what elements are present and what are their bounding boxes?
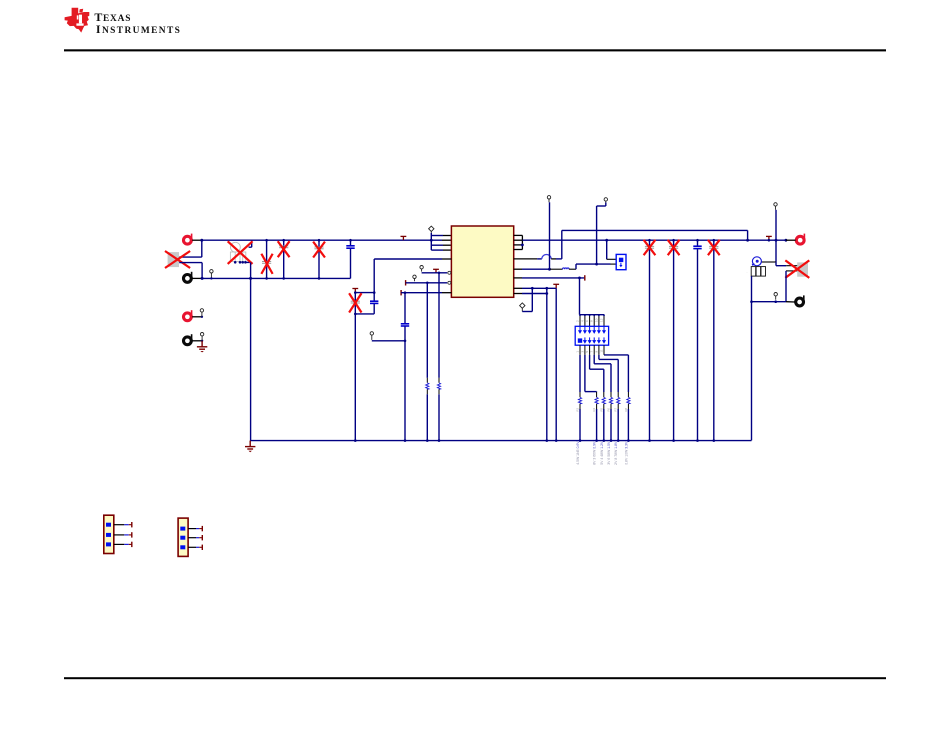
wire U1 pin VIN1 — [431, 235, 443, 237]
resistor R2 wire lower — [426, 389, 428, 394]
node sense bus crossing — [775, 239, 778, 242]
node GND junction at jack — [201, 277, 204, 280]
node PH loop to VOUT bus — [746, 239, 749, 242]
wire C6 top net — [355, 292, 374, 294]
wire J12 pin 3 lead — [188, 546, 196, 548]
resistor R8 wire lower — [627, 404, 629, 409]
svg-text:4: 4 — [580, 320, 584, 322]
net flag AGND diamond — [520, 303, 525, 312]
wire JP2 to output return — [751, 276, 753, 440]
connector JP1 (blue) — [616, 254, 626, 269]
wire U1 PGOOD pin to header — [514, 277, 522, 279]
wire J5 pin3 jog — [584, 355, 586, 392]
resistor R1 — [437, 383, 440, 389]
wire U1 EN pin (bubble) — [422, 272, 448, 274]
svg-text:11: 11 — [599, 349, 603, 352]
svg-text:8: 8 — [590, 320, 594, 322]
wire output bus VOUT — [522, 239, 786, 241]
svg-text:R6: R6 — [607, 407, 611, 411]
net flag SSTRACK — [370, 332, 373, 340]
node ground bus junction — [713, 439, 716, 442]
power tap T4 on FB net — [553, 284, 559, 288]
net flag on J10 — [200, 333, 203, 341]
wire J12 pin 2 lead — [188, 537, 196, 539]
connector J11 pin 2 — [106, 533, 111, 537]
svg-text:1: 1 — [575, 351, 579, 353]
resistor R6 — [609, 397, 612, 403]
wire J9 stub — [192, 316, 202, 318]
capacitor C9 plates — [669, 246, 678, 248]
wire U1 PH pin with hop — [514, 258, 537, 260]
capacitor C1 (DNP) wire — [266, 240, 268, 278]
svg-text:6: 6 — [585, 320, 589, 322]
capacitor C7 soft-start wire — [404, 293, 406, 324]
wire J5 pin9 jog — [598, 355, 600, 360]
node VOUT tie — [521, 244, 524, 247]
DNP X over C9 — [668, 241, 678, 255]
banana jack J10 sense- (black) — [184, 334, 193, 344]
node ground bus junction — [603, 439, 606, 442]
wire FB divider vertical 1 — [555, 288, 557, 440]
resistor R4 — [595, 397, 598, 403]
wire U1 SS pin — [401, 292, 442, 294]
wire J11 pin 1 lead — [114, 524, 125, 526]
connector J12 body — [178, 518, 188, 556]
svg-text:R7: R7 — [614, 407, 618, 411]
resistor R6 wire lower — [610, 404, 612, 409]
connector J5 bottom row pins, pin1 square — [578, 338, 582, 342]
wire header bottom pin stubs — [580, 345, 604, 355]
ground symbol at J10 — [197, 341, 207, 353]
wire current loop link — [762, 261, 777, 263]
net stop bar J12 pin 1 — [199, 528, 202, 530]
wire BOOT cap branch vertical — [373, 259, 375, 301]
power tap T1 on VIN bus — [401, 236, 407, 240]
wire J3 to GND bus — [192, 277, 202, 279]
node VIN bus crossing — [430, 239, 433, 242]
capacitor C4 input bulk — [350, 240, 352, 245]
connector J12 pin 3 — [180, 545, 185, 549]
node ground bus junction — [610, 439, 613, 442]
capacitor C11 (DNP) wire — [713, 240, 715, 440]
net stop bar J12 pin 2 — [199, 537, 202, 539]
TI logo wordmark TEXAS INSTRUMENTS — [94, 10, 181, 36]
capacitor C9 (DNP) wire — [673, 240, 675, 440]
svg-text:R3: R3 — [576, 407, 580, 411]
svg-text:9: 9 — [594, 351, 598, 353]
wire SSTRACK to C7 net — [372, 340, 405, 342]
wire U1 pin VIN3 — [431, 244, 443, 246]
power tap T2 on C6 net — [352, 289, 358, 293]
wire U1 SW pin to inductor L1 — [514, 268, 522, 270]
wire output return horizontal — [752, 301, 787, 303]
banana jack J3 VIN- (black) — [184, 272, 193, 283]
wire J1 to bus — [192, 239, 202, 241]
wire J6 pin2 down — [785, 271, 787, 302]
connector J2 (DNP, grey) — [168, 252, 179, 267]
node JP2 return junction — [750, 300, 753, 303]
capacitor C2 plates — [279, 246, 288, 248]
wire J11 pin 2 lead — [114, 534, 125, 536]
wire U1 BOOT pin net — [374, 258, 442, 260]
wire L1 to jumper JP1 — [569, 268, 576, 270]
wire J12 pin 1 lead — [188, 528, 196, 530]
wire PH feedback loop up-over — [561, 230, 563, 259]
resistor R6 wire upper — [610, 392, 612, 397]
wire header top pin stubs — [580, 315, 604, 327]
node ground bus junction — [404, 439, 407, 442]
net flag VOUT sense top right — [774, 203, 777, 210]
svg-text:8V 3 66W 0.9V: 8V 3 66W 0.9V — [593, 441, 597, 465]
svg-text:5V 4 48W 1.2V: 5V 4 48W 1.2V — [600, 441, 604, 465]
wire J5 pin11 jog — [603, 354, 605, 356]
power tap T5 on VOUT bus — [766, 236, 772, 240]
capacitor C7 — [401, 324, 409, 326]
svg-text:7: 7 — [590, 351, 594, 353]
wire U1 COMP pin net — [514, 293, 522, 295]
DNP X over connector J4 — [229, 242, 252, 263]
wire header feed rail — [580, 314, 605, 316]
wire GND vertical from J4 to ground bus — [250, 262, 252, 440]
resistor R8 — [627, 397, 630, 403]
connector J11 pin 3 — [106, 542, 111, 546]
banana jack J1 VIN+ (red) — [184, 234, 193, 245]
node ground bus junction — [426, 439, 429, 442]
resistor R5 wire upper — [603, 392, 605, 397]
capacitor C8 plates — [645, 246, 654, 248]
header J5 pin numbers bottom — [575, 349, 603, 352]
connector J6 (DNP grey) — [797, 262, 808, 276]
wire bus tap to J4 top — [251, 240, 253, 247]
wire J5 pin7 jog — [593, 355, 595, 364]
node ground bus junction — [438, 439, 441, 442]
svg-text:..: .. — [746, 270, 748, 273]
connector J12 pin 1 — [180, 527, 185, 531]
node ground bus junction — [555, 439, 558, 442]
banana jack J9 sense+ (red) — [184, 310, 193, 320]
net stop bar J11 pin 3 — [129, 543, 132, 545]
svg-text:R5: R5 — [599, 407, 603, 411]
header rule — [64, 49, 886, 51]
DNP X over C2 — [278, 242, 289, 256]
connector J5 body (blue) — [575, 326, 608, 345]
wire ground bus — [250, 440, 751, 442]
net flag SYNC — [413, 275, 416, 281]
net stop bar on SYNC net — [405, 280, 407, 285]
wire C5/C6 join to ground — [355, 313, 374, 315]
wire PGOOD drop to header rail — [579, 278, 581, 315]
resistor R5 wire lower — [603, 404, 605, 409]
svg-text:3: 3 — [580, 351, 584, 353]
resistor R5 — [602, 397, 605, 403]
svg-text:4.5W 1N5 0.6V: 4.5W 1N5 0.6V — [576, 441, 580, 465]
capacitor C6 plates — [351, 301, 360, 303]
connector J4 pins (blue dots) — [234, 261, 247, 264]
net stop bar on SS net — [400, 290, 402, 295]
svg-text:2: 2 — [575, 320, 579, 322]
resistor R1 wire upper — [438, 273, 440, 378]
resistor R7 — [617, 397, 620, 403]
DNP X over C8 — [644, 241, 654, 255]
resistor R3 wire upper — [579, 392, 581, 397]
net flag VOUT- sense — [774, 293, 777, 300]
DNP X over J6 — [786, 261, 808, 277]
capacitor C6 (DNP) wire — [354, 293, 356, 314]
DNP X over C1 — [262, 255, 272, 273]
net stop bar J12 pin 3 — [199, 546, 202, 548]
net flag PVIN diamond above IC — [429, 226, 434, 233]
current loop probe CL1 — [752, 257, 762, 267]
resistor R2 wire upper — [426, 283, 428, 378]
capacitor C10 output bulk wire — [697, 240, 699, 245]
wire VOSNS- jog vertical — [605, 203, 607, 207]
wire J5 pin5 jog — [589, 355, 591, 369]
node ground bus junction — [546, 439, 549, 442]
wire C5 bottom — [373, 304, 375, 314]
net flag VOSNS- — [604, 198, 607, 203]
DNP X over C6 — [350, 294, 361, 311]
node ground bus junction — [579, 439, 582, 442]
wire top input bus VIN — [202, 239, 442, 241]
wire U1 SYNC pin (bubble) — [406, 282, 448, 284]
capacitor C1 plates — [262, 262, 271, 264]
wire U1 FB pin net — [514, 287, 522, 289]
TI logo red Texas-map bug — [65, 8, 90, 33]
wire FB divider vertical 2 — [546, 288, 548, 440]
banana jack J7 VOUT+ (red) — [796, 234, 805, 245]
net flag EN — [420, 266, 423, 272]
wire J5 pin1 column — [579, 355, 581, 392]
connector J12 pin 2 — [180, 536, 185, 540]
wire J10 stub — [192, 340, 202, 342]
wire PVIN tie vertical — [430, 233, 432, 250]
footer rule — [64, 677, 886, 679]
connector J4 (DNP ghost outline) — [230, 242, 245, 261]
wire U1 pin VIN2 from bus — [442, 239, 451, 241]
node ground bus junction — [595, 439, 598, 442]
resistor R8 wire upper — [627, 392, 629, 397]
svg-text:R8: R8 — [624, 407, 628, 411]
capacitor C3 (DNP) wire — [318, 240, 320, 278]
node ground bus junction — [696, 439, 699, 442]
resistor R7 wire lower — [617, 404, 619, 409]
connector J11 pin 1 — [106, 523, 111, 527]
resistor R3 — [578, 397, 581, 403]
svg-text:R4: R4 — [592, 407, 596, 411]
wire J4 ground pins to GND vertical — [245, 261, 250, 263]
connector J5 top row pins — [579, 326, 605, 333]
resistor R4 wire upper — [596, 392, 598, 397]
wire VOUT sense vertical — [775, 210, 777, 262]
banana jack J8 VOUT- (black) — [796, 295, 805, 306]
svg-text:10: 10 — [594, 318, 598, 322]
resistor R1 wire lower — [438, 389, 440, 394]
capacitor C11 plates — [709, 246, 718, 248]
op IC U1 body — [451, 226, 513, 297]
wire VIN drop to DNP connector J2 pin1 — [201, 240, 203, 257]
net stop bar PGOOD — [584, 275, 586, 280]
DNP X over C11 — [709, 241, 719, 255]
wire U1 VOUT pins tie bar — [521, 235, 523, 249]
power tap T3 on EN net — [433, 269, 439, 273]
capacitor C2 (DNP) wire — [283, 240, 285, 278]
node ground bus junction — [617, 439, 620, 442]
resistor R4 wire lower — [596, 404, 598, 409]
node ground bus junction — [648, 439, 651, 442]
svg-text:3V 6 58W 1.5V: 3V 6 58W 1.5V — [607, 441, 611, 465]
jumper JP2 shunt boxes — [751, 267, 765, 277]
DNP X over connector J2 — [166, 252, 189, 268]
svg-text:2V 8 78W 1.8V: 2V 8 78W 1.8V — [614, 441, 618, 465]
connector J11 body — [104, 515, 114, 553]
node ground bus junction — [354, 439, 357, 442]
resistor R3 wire lower — [579, 404, 581, 409]
inductor L1 — [563, 268, 570, 269]
net flag on J9 — [200, 309, 203, 317]
capacitor C5 boot — [370, 301, 378, 303]
node ground bus junction — [672, 439, 675, 442]
svg-text:12: 12 — [599, 318, 603, 322]
capacitor C8 (DNP) wire — [649, 240, 651, 440]
wire AGND flag link — [522, 311, 532, 313]
resistor R7 wire upper — [617, 392, 619, 397]
net stop bar J11 pin 2 — [129, 534, 132, 536]
wire return to J8 — [786, 301, 795, 303]
node VIN junction at jack — [200, 239, 203, 242]
svg-text:5: 5 — [585, 351, 589, 353]
wire J2 pin2 to GND bus — [179, 262, 202, 264]
node J4 GND junction on lower bus — [249, 277, 252, 280]
wire bus to J7 — [785, 239, 788, 242]
node PGOOD drop — [578, 277, 581, 280]
wire VOUT bus tap to JP1 top pin — [605, 239, 608, 242]
capacitor C3 plates — [314, 247, 323, 249]
wire VOSNS+ vertical — [549, 202, 551, 269]
resistor R2 — [426, 383, 429, 389]
ground symbol main — [245, 441, 255, 453]
net flag GNDS on lower bus — [210, 270, 213, 279]
wire lower input bus GND — [202, 277, 351, 279]
svg-text:0.8V 10W 3.3V: 0.8V 10W 3.3V — [624, 441, 628, 465]
net flag VOSNS+ — [547, 196, 550, 203]
DNP X over C3 — [314, 243, 325, 257]
wire C7 bottom to ground bus — [404, 327, 406, 441]
wire J11 pin 3 lead — [114, 543, 125, 545]
net stop bar J11 pin 1 — [129, 524, 132, 526]
wire sense to J6 pin1 — [775, 262, 777, 266]
wire U1 pin VIN4 — [431, 249, 443, 251]
header J5 pin numbers top — [575, 318, 603, 322]
node ground bus junction — [627, 439, 630, 442]
